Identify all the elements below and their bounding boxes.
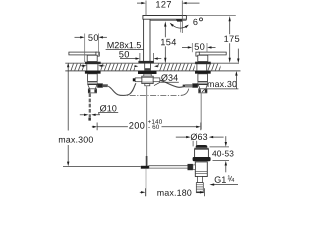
right valve deck shank [197, 64, 207, 71]
countertop bottom line [65, 70, 240, 72]
pull rod lower section [146, 156, 148, 166]
label O10 [80, 105, 118, 116]
drain lower tail [198, 177, 203, 183]
left valve hose hex nut [97, 83, 103, 87]
drain cap lip [194, 148, 208, 149]
hose spout tee to right valve [160, 80, 185, 87]
spout shank dark lower [145, 68, 151, 71]
right valve body below deck [198, 74, 208, 82]
spout locknut [138, 71, 157, 74]
drain upper cylinder [195, 149, 209, 158]
dimension max.180 [140, 188, 205, 196]
left valve bottom block [88, 89, 96, 93]
angle 6 degrees [170, 18, 203, 33]
right supply pipe [200, 93, 202, 130]
extension line below rod fitting [145, 169, 147, 197]
right valve locknut [195, 71, 211, 74]
right handle base flange [195, 62, 211, 64]
drain body inner lines [195, 171, 207, 173]
left valve deck shank [87, 64, 98, 71]
spout tee left nipple [135, 78, 142, 82]
spout neck [144, 74, 151, 76]
drain collar black [193, 157, 211, 161]
dimension 175 [187, 16, 240, 63]
left valve locknut [85, 71, 101, 74]
spout chin line [150, 19, 186, 20]
dimension 154 [161, 21, 176, 63]
right handle lever [199, 52, 226, 55]
spout aerator tip [176, 20, 183, 22]
right valve tail [198, 85, 207, 89]
spout under-tee piece [145, 84, 150, 86]
drain body [195, 162, 207, 177]
countertop hatched section [70, 64, 220, 71]
right valve bottom block [199, 89, 207, 93]
dimension O63 [176, 133, 224, 140]
label O34 [154, 74, 179, 85]
hose phantom dash-dot line [120, 94, 182, 96]
spout tee body [142, 76, 153, 83]
pull rod end fitting [141, 166, 149, 169]
countertop top line [65, 62, 239, 64]
left handle base flange [85, 62, 101, 64]
label G1 1/4 [209, 175, 238, 185]
pop-up pull rod [146, 86, 148, 156]
thread label M28x1.5 [80, 42, 143, 67]
dimension 127 [137, 1, 200, 34]
spout tee inner lines [142, 78, 153, 82]
drain outlet stub [193, 165, 195, 170]
drain thread lines [196, 184, 203, 191]
hose right end curve to right valve [181, 89, 189, 96]
right handle body above deck [198, 55, 208, 61]
drain cap dome [196, 145, 208, 148]
spout deck pointer arrows [134, 65, 135, 67]
drain threaded end [196, 183, 203, 193]
drain outlet nut [188, 164, 193, 170]
dimension 50 middle [119, 51, 161, 61]
spout deck shank [145, 63, 151, 71]
dimension max.30 [202, 49, 240, 93]
dimension 200 with tolerance [92, 119, 201, 130]
flexible hose U loop left valve to spout tee [108, 83, 136, 95]
drain outlet pipe double line [148, 166, 187, 168]
dimension 50 left [75, 34, 107, 63]
left valve body below deck [88, 74, 98, 82]
dimension 40-53 [210, 136, 234, 172]
spout base flange [138, 61, 154, 63]
left valve tail [88, 85, 97, 89]
spout body [143, 16, 187, 20]
right valve hose hex nut [192, 83, 198, 87]
spout column [144, 19, 150, 62]
right handle lever post [196, 52, 199, 56]
left handle lever [69, 52, 96, 55]
spout tee right nipple [153, 78, 160, 82]
hose maximum length reference line [63, 165, 141, 167]
right valve thread band [198, 81, 208, 84]
left valve thread band [88, 81, 98, 84]
left valve hose nipple tip [103, 84, 108, 87]
drain stem lines [193, 141, 197, 147]
left handle body above deck [87, 55, 97, 61]
spout tee left hose fitting [133, 78, 135, 81]
left handle lever post [96, 52, 99, 56]
dimension max.300 [59, 63, 93, 167]
dimension 50 right [182, 43, 216, 52]
right valve hose end fitting hatched [185, 84, 192, 87]
left supply pipe dashed [89, 93, 91, 117]
